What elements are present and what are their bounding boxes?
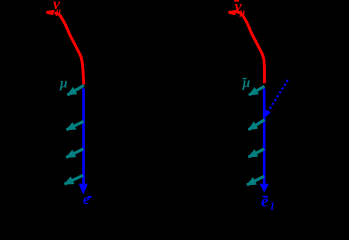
svg-text:1: 1	[270, 201, 275, 212]
teal overbar of mubar	[243, 78, 247, 80]
blue dashed incoming line	[266, 80, 288, 115]
svg-text:μ: μ	[59, 76, 68, 91]
blue arrowhead down (right)	[260, 184, 269, 193]
blue arrowhead down	[79, 184, 88, 195]
teal spin arrow 2 (right)	[249, 120, 265, 130]
svg-text:μ: μ	[239, 8, 245, 18]
svg-text:μ: μ	[55, 6, 61, 16]
teal spin arrow 1 (right)	[249, 86, 265, 95]
red antineutrino trajectory curve	[236, 12, 264, 84]
teal spin arrow 4 (right)	[247, 176, 264, 185]
blue superscript minus	[88, 196, 92, 198]
red arrowhead (right curve)	[228, 10, 237, 15]
blue muon line	[82, 88, 85, 184]
teal spin arrow 3 (right)	[249, 149, 265, 157]
teal spin arrow 2	[67, 121, 84, 130]
red overbar of nubar	[234, 0, 239, 2]
blue overbar of ebar	[263, 196, 268, 198]
teal spin arrow 1	[68, 85, 85, 95]
red arrowhead (left curve)	[46, 10, 55, 15]
svg-text:e: e	[83, 192, 90, 208]
red neutrino trajectory curve	[55, 13, 84, 85]
teal spin arrow 4	[65, 175, 84, 184]
teal spin arrow 3	[66, 149, 83, 158]
svg-text:e: e	[261, 192, 268, 211]
blue muon line (right)	[263, 89, 266, 185]
svg-text:μ: μ	[242, 75, 251, 90]
